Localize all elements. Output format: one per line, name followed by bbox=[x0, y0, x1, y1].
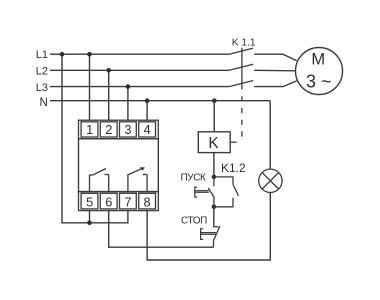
wire junction to stop bbox=[213, 207, 215, 227]
coil K feed wire bbox=[213, 101, 215, 132]
wire L3 rail bbox=[50, 86, 229, 88]
relay contact 5-6 bbox=[89, 169, 109, 192]
pushbutton PUSK actuator bbox=[195, 187, 209, 198]
wire N to lamp bbox=[269, 101, 271, 170]
svg-text:7: 7 bbox=[124, 194, 131, 209]
svg-text:3 ~: 3 ~ bbox=[306, 72, 332, 92]
junction node N-terminal4 bbox=[145, 98, 150, 103]
relay top terminal row bbox=[79, 120, 159, 139]
svg-text:8: 8 bbox=[144, 194, 151, 209]
coil K bbox=[198, 132, 230, 153]
wire coil to junction bbox=[213, 153, 215, 177]
relay device body bbox=[79, 139, 159, 192]
wire stop to terminal 6 bbox=[109, 211, 214, 248]
wire contact L1 to motor bbox=[254, 54, 297, 61]
junction node bottom-terminal5 bbox=[87, 221, 92, 226]
svg-text:N: N bbox=[39, 97, 47, 109]
svg-text:K1.2: K1.2 bbox=[221, 161, 246, 175]
svg-text:L3: L3 bbox=[36, 82, 48, 94]
wire terminal 5 drop bbox=[89, 211, 91, 223]
wire L1 left branch to terminals 5 and 7 bbox=[62, 54, 128, 223]
wire L2 rail bbox=[50, 69, 229, 71]
svg-text:6: 6 bbox=[105, 194, 112, 209]
junction node L1-terminal1 bbox=[87, 52, 92, 57]
svg-text:1: 1 bbox=[86, 122, 93, 137]
wire lamp to terminal 8 bbox=[147, 193, 270, 261]
wire contact L3 to motor bbox=[254, 81, 297, 87]
relay contact 7-8 bbox=[127, 167, 147, 191]
junction node pusk-top bbox=[212, 175, 217, 180]
motor M bbox=[296, 48, 343, 95]
wire L1 rail bbox=[50, 53, 229, 55]
junction node pusk-bottom bbox=[212, 205, 217, 210]
mechanical link dashed bbox=[241, 96, 243, 141]
wire N rail bbox=[50, 100, 270, 102]
contactor K1.1 link bar bbox=[241, 48, 243, 90]
svg-text:СТОП: СТОП bbox=[181, 216, 207, 227]
contact K1.2 branch bbox=[214, 177, 239, 207]
svg-text:K: K bbox=[208, 135, 219, 152]
svg-text:4: 4 bbox=[144, 122, 151, 137]
relay bottom terminal row bbox=[79, 192, 159, 211]
wire L3 to terminal 3 bbox=[127, 87, 129, 121]
junction node L1-left bbox=[60, 52, 65, 57]
svg-text:L1: L1 bbox=[36, 49, 48, 61]
svg-text:5: 5 bbox=[86, 194, 93, 209]
svg-text:ПУСК: ПУСК bbox=[181, 172, 207, 183]
junction node L2-terminal2 bbox=[106, 68, 111, 73]
wire N to terminal 4 bbox=[146, 101, 148, 121]
svg-text:2: 2 bbox=[105, 122, 112, 137]
svg-text:3: 3 bbox=[124, 122, 131, 137]
pushbutton STOP contact bbox=[213, 226, 220, 247]
contactor K1.1 contact L2 bbox=[229, 64, 253, 70]
wire L2 to terminal 2 bbox=[108, 70, 110, 120]
contactor K1.1 contact L1 bbox=[229, 48, 253, 54]
svg-text:K 1.1: K 1.1 bbox=[232, 38, 256, 49]
wire contact L2 to motor bbox=[254, 69, 295, 72]
wire L1 to terminal 1 bbox=[89, 54, 91, 120]
pushbutton STOP actuator bbox=[201, 228, 216, 240]
pushbutton PUSK contact bbox=[208, 177, 214, 207]
junction node N-coil bbox=[212, 98, 217, 103]
junction node L3-terminal3 bbox=[126, 84, 131, 89]
lamp HL bbox=[259, 169, 282, 192]
contactor K1.1 contact L3 bbox=[229, 81, 253, 87]
svg-text:L2: L2 bbox=[36, 65, 48, 77]
svg-text:M: M bbox=[311, 51, 325, 69]
